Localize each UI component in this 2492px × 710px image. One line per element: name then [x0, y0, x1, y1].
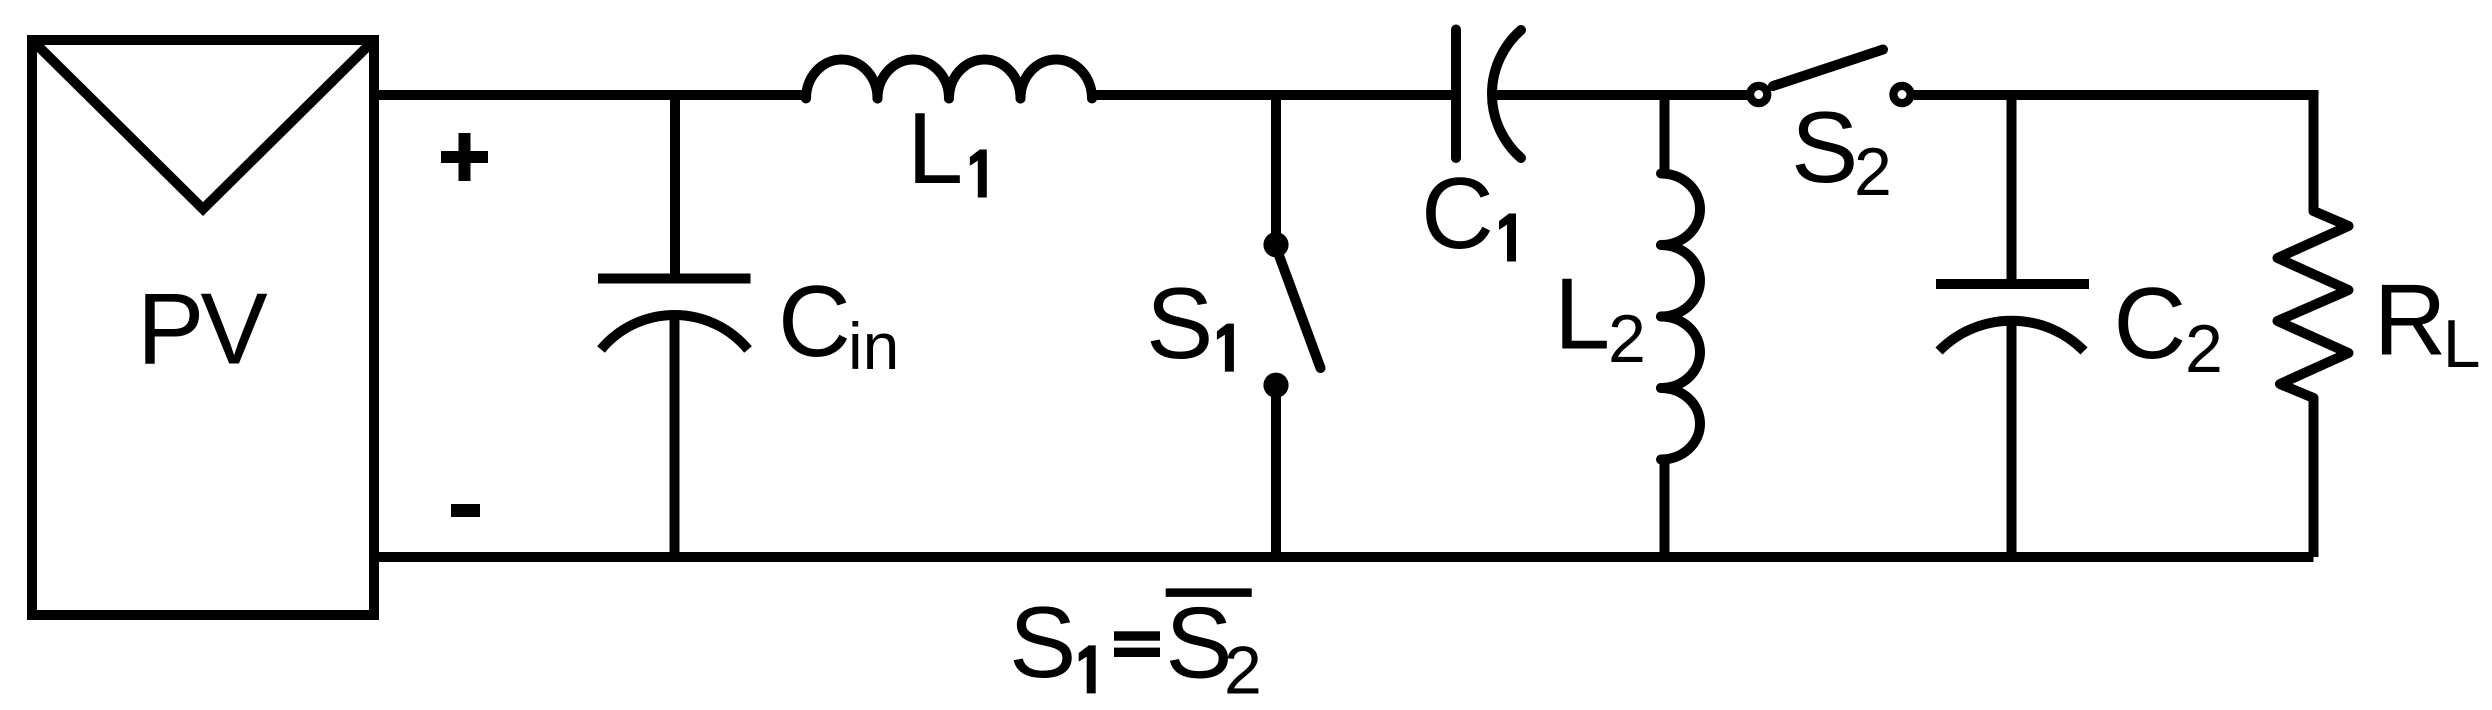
svg-text:R: R	[2374, 265, 2447, 377]
svg-text:C: C	[2113, 268, 2186, 380]
svg-text:C: C	[1421, 158, 1494, 270]
svg-text:S: S	[1791, 92, 1858, 204]
svg-text:S: S	[1009, 587, 1076, 699]
svg-text:C: C	[778, 266, 851, 378]
svg-text:2: 2	[2185, 311, 2223, 387]
svg-text:2: 2	[1854, 134, 1892, 210]
svg-text:L: L	[907, 93, 963, 205]
svg-text:2: 2	[1608, 301, 1646, 377]
svg-text:S: S	[1165, 588, 1232, 700]
svg-text:S: S	[1146, 268, 1213, 380]
svg-text:L: L	[1554, 259, 1610, 371]
svg-text:in: in	[848, 309, 899, 383]
svg-text:PV: PV	[137, 274, 267, 386]
svg-text:L: L	[2443, 306, 2481, 382]
svg-text:2: 2	[1224, 633, 1262, 709]
